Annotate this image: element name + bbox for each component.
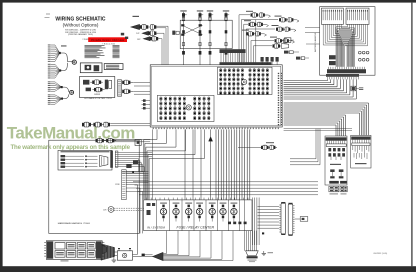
cab block diode group D1-D3 [358, 51, 361, 54]
engine crossed brace [182, 25, 203, 35]
mainframe harness boundary box [49, 140, 139, 233]
door switch lead and box [295, 218, 301, 220]
spare relay cell 2 [66, 243, 75, 249]
cab block braided wires [322, 24, 324, 45]
fuel sensor S3 [244, 20, 251, 21]
splice dot [262, 232, 264, 234]
cab block diode group D4-D6 [358, 58, 361, 61]
controller connector grid J1 (lower left) [157, 95, 214, 121]
glow plug / injector GP4 [223, 10, 229, 11]
cab header connector CN-A [322, 8, 344, 24]
spare relay cell 5 [55, 251, 65, 258]
tailgate fan label [248, 259, 257, 262]
mainframe fan connector (left) [153, 252, 163, 260]
svg-text:WIRING SCHEMATIC: WIRING SCHEMATIC [55, 16, 105, 22]
cab door connector half A [281, 203, 286, 234]
back-up alarm B1 [131, 24, 140, 29]
svg-text:HYDRAULIC FILTER #7324: HYDRAULIC FILTER #7324 [84, 97, 112, 100]
controller grid J2 keyway circle [242, 79, 247, 84]
ground fan label [61, 45, 67, 46]
spare relay cell 1 [55, 243, 65, 249]
panel output connector bar [110, 151, 113, 168]
12R8 drop wires to battery feed [126, 184, 137, 186]
controller left stub connectors [142, 100, 151, 102]
svg-text:(PRINTED JANUARY 2005): (PRINTED JANUARY 2005) [68, 33, 93, 36]
svg-text:12R8: 12R8 [115, 184, 120, 186]
harness bundle W-B to console connectors [284, 102, 369, 104]
ring terminal RT2 [70, 90, 74, 94]
attachment console bottom bars [329, 181, 339, 184]
panel switch SW2 [61, 159, 66, 161]
relay K7 [231, 203, 238, 204]
engine left connector [172, 31, 175, 35]
relay K4 [196, 203, 203, 204]
right drop runs to console [290, 158, 316, 160]
spare grid label [61, 260, 69, 261]
12R8 outgoing wires [126, 170, 148, 172]
relay feed pass-through wires [156, 200, 158, 231]
svg-text:The watermark only appears on: The watermark only appears on this sampl… [11, 144, 131, 151]
ground fan GND2 lead [60, 63, 67, 71]
bulkhead connector column CN-H [118, 80, 122, 96]
coolant temp sensor S1 [246, 11, 253, 12]
glow plug / injector GP3 [207, 10, 213, 11]
spare relay box grid [46, 241, 102, 259]
panel output wires [118, 152, 152, 154]
wires to main controller left pins [134, 81, 150, 83]
ground fan connector GND2 pins [51, 63, 55, 65]
harness bundle W-A to bulkhead bar [284, 80, 328, 82]
controller top entry bar [220, 49, 246, 53]
right console label [355, 163, 367, 164]
attachment console label [330, 164, 341, 165]
water temp sensor S4 [272, 25, 279, 26]
right aux drop wires [252, 198, 254, 246]
cross harness horizontal runs [133, 181, 318, 183]
ground fan connector GND1 pins [51, 44, 55, 46]
hydraulic filter assembly box [80, 77, 115, 98]
note text box [104, 64, 123, 70]
glow plug / injector GP1 [180, 10, 186, 11]
svg-text:CWMX: CWMX [94, 94, 101, 96]
starter relay R0 [285, 38, 291, 43]
svg-text:IN / SYSTEM: IN / SYSTEM [147, 226, 165, 230]
svg-text:TakeManual.com: TakeManual.com [7, 124, 135, 143]
controller left drop wires [152, 129, 154, 199]
console feed horizontals [284, 128, 352, 130]
fan lead to starter box [133, 256, 153, 258]
starter splice bead [142, 254, 145, 256]
oil pressure sender [83, 80, 89, 85]
controller bottom drop bundle [215, 129, 217, 199]
cab block bottom bar connector [327, 69, 366, 73]
seat-bar sensor chain [238, 146, 261, 148]
spare relay cell 7 [77, 251, 86, 258]
battery ground strap [114, 256, 117, 261]
alarm feed wires dropping to controller [167, 26, 169, 65]
svg-text:© Bobcat 2005: © Bobcat 2005 [102, 43, 116, 46]
attachment console lower switches [330, 169, 334, 172]
svg-text:(Without Options): (Without Options) [63, 23, 99, 28]
fuse panel top pins [146, 198, 148, 200]
svg-text:BATTERY HARNESS: BATTERY HARNESS [314, 32, 317, 52]
panel gauge cluster [100, 155, 108, 166]
oil pressure sensor S2 [275, 16, 282, 17]
small relay parts above ladder [126, 164, 131, 168]
fuse block labels [330, 193, 339, 194]
key switch feed circle [108, 207, 114, 213]
fuse center bottom-right contact row [228, 222, 231, 225]
relay K3 [185, 203, 192, 204]
boom harness chain CH2 [96, 139, 98, 142]
svg-text:6902953 (1-05): 6902953 (1-05) [374, 253, 388, 255]
bundle W-B inline connector [351, 86, 356, 91]
spare relay cell 8 [87, 251, 95, 258]
ring terminal RT1 [72, 60, 76, 64]
sensor-to-cab jumper wires [305, 26, 320, 28]
sensor feed stubs [239, 14, 250, 16]
svg-text:Printable Version: Click Here: Printable Version: Click Here [91, 38, 125, 42]
cab door connector half B [288, 204, 293, 235]
spare relay grid pins [44, 242, 46, 244]
main bulkhead connector bar CN-C [326, 74, 359, 77]
tailgate fan connector [246, 251, 259, 256]
engine harness riser bundle [238, 15, 240, 65]
ground fan connector GND3 pins [51, 81, 55, 83]
panel lower wire pair [122, 170, 144, 172]
aux small connectors [284, 51, 289, 54]
operator switch panel box [58, 150, 112, 170]
ground fan GND1 lead to ring terminal [60, 53, 74, 62]
relay K2 [173, 203, 180, 204]
boom harness chain CH1 [82, 123, 84, 127]
fuse panel output drops [166, 231, 168, 254]
battery box BT1 [117, 251, 132, 260]
panel switch SW1 [61, 155, 66, 157]
temp sender [86, 88, 91, 92]
controller bottom pin labels [153, 128, 154, 130]
glow plug / injector GP2 [197, 10, 203, 11]
cab door connector feed wires [258, 206, 280, 208]
battery feed splice [133, 253, 138, 255]
panel switch SW4 [61, 166, 66, 168]
controller grid J1 keyway circle [186, 105, 191, 110]
spare grid output plug [102, 245, 106, 253]
attachment console block [325, 136, 347, 185]
controller connector grid J2 (upper right) [218, 67, 273, 94]
spare relay cell 6 [66, 251, 75, 258]
cab header connector CN-B [346, 8, 369, 24]
small inline rect component [135, 140, 141, 146]
cab junction block outline [320, 7, 375, 76]
spare relay cell 4 [87, 243, 95, 249]
controller bottom staircase wires [156, 129, 158, 139]
spare relay cell 3 [77, 243, 86, 249]
ground fan GND4 lead [62, 94, 69, 98]
wire colour legend list [85, 44, 105, 47]
svg-text:MAINFRAME HARNESS #73000: MAINFRAME HARNESS #73000 [58, 222, 91, 225]
controller right edge pin columns [278, 73, 279, 74]
right console block [351, 135, 371, 168]
air filter sensor S6 [270, 37, 277, 38]
fuel shutoff actuator S7 [273, 44, 275, 47]
relay K6 [220, 203, 227, 204]
panel output ladder [115, 151, 118, 167]
fuse center small aux parts [147, 203, 151, 206]
fuse block F-B [340, 186, 347, 192]
frame ground G2 [263, 251, 265, 253]
relay K5 [209, 203, 216, 204]
harness junction marker [209, 137, 213, 142]
red printable-version banner [88, 37, 127, 42]
fuel shutoff solenoid box [80, 63, 102, 73]
speed sensor S5 [242, 30, 249, 31]
ground fan connector GND4 pins [51, 94, 55, 96]
ground fan GND3 lead [62, 87, 69, 92]
hydraulic harness barrels [122, 81, 124, 84]
starter motor M1 cone [101, 244, 115, 260]
relay K1 [160, 203, 167, 204]
cab block micro relays [329, 55, 336, 59]
tailgate drop bundle [244, 231, 246, 251]
tiny reference marks [46, 14, 50, 15]
panel switch SW3 [61, 162, 66, 164]
filter switch [105, 80, 108, 90]
engine block outline [180, 20, 232, 48]
fuse block F-A [329, 186, 339, 192]
fuse relay center box [144, 200, 252, 231]
main controller outline [150, 65, 282, 127]
controller top edge connector strip [220, 62, 272, 65]
svg-text:FUSE / RELAY CENTER: FUSE / RELAY CENTER [177, 226, 215, 230]
controller aux entries [261, 57, 264, 62]
